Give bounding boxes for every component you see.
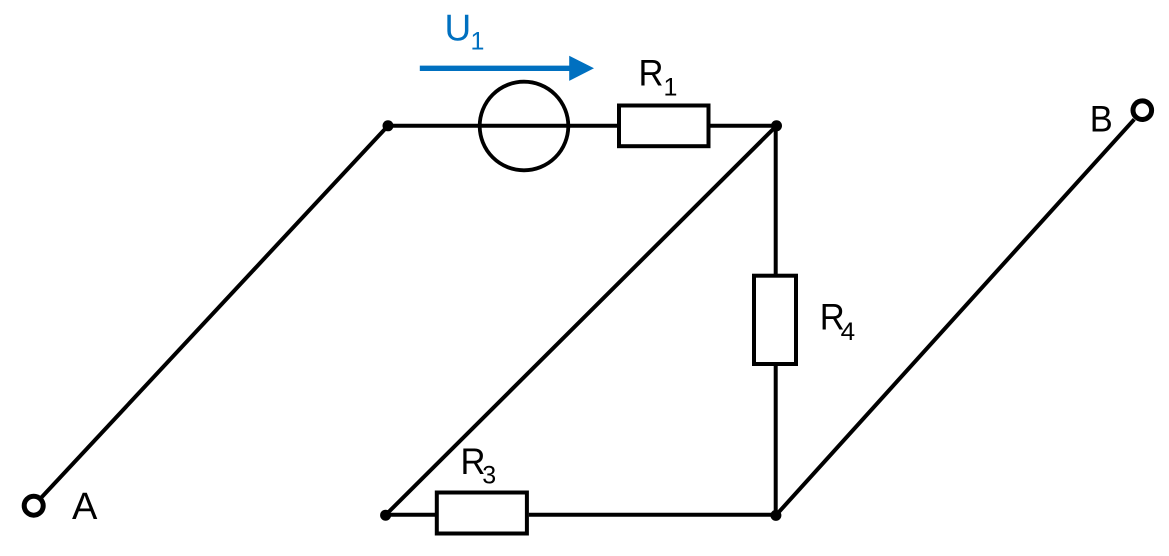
node junction top-right bbox=[771, 120, 782, 131]
node junction bottom-right bbox=[770, 510, 781, 521]
svg-text:B: B bbox=[1090, 98, 1113, 139]
wire top-right junction down to R4 bbox=[774, 126, 778, 276]
svg-text:1: 1 bbox=[664, 73, 678, 101]
wire R3 to bottom-right junction bbox=[529, 513, 776, 517]
resistor R4 bbox=[754, 276, 796, 364]
svg-text:R: R bbox=[639, 52, 664, 93]
node junction bottom-left bbox=[380, 510, 391, 521]
node junction top-left bbox=[383, 120, 394, 131]
terminal B bbox=[1133, 101, 1152, 120]
wire R1 to top-right junction bbox=[711, 124, 777, 128]
svg-text:U: U bbox=[445, 7, 472, 48]
wire R4 down to bottom-right junction bbox=[774, 364, 778, 515]
voltage arrow U1 bbox=[420, 56, 594, 81]
resistor R3 bbox=[437, 493, 527, 534]
svg-text:3: 3 bbox=[482, 462, 496, 490]
svg-text:1: 1 bbox=[471, 28, 485, 56]
voltage source U1 bbox=[480, 82, 569, 171]
terminal A bbox=[24, 496, 43, 515]
wire bottom-right junction to B bbox=[776, 119, 1134, 515]
diagonal wire top-right junction to bottom-left junction bbox=[386, 126, 777, 515]
wire bottom-left junction to R3 bbox=[386, 513, 437, 517]
wire top-left junction to R1 bbox=[388, 124, 619, 128]
wire A to top-left junction bbox=[40, 126, 388, 499]
svg-text:4: 4 bbox=[841, 318, 856, 346]
resistor R1 bbox=[619, 106, 709, 147]
svg-text:A: A bbox=[72, 486, 98, 528]
